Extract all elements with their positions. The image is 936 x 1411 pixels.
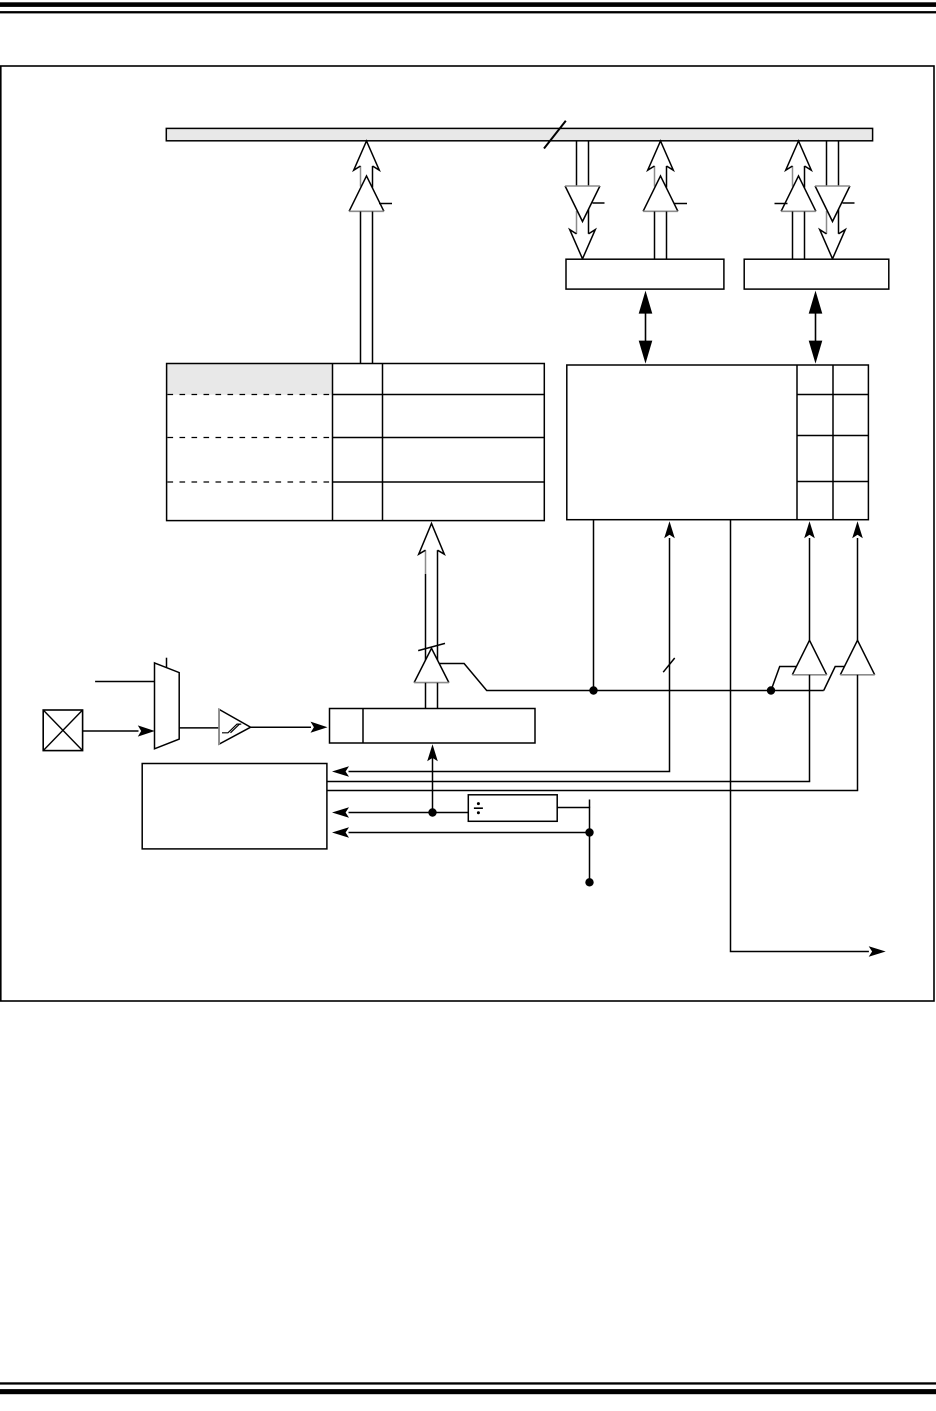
page header thick rule (0, 2, 936, 7)
wire crystal to mux (83, 725, 155, 736)
wire buffer1 to control box (327, 781, 810, 783)
wire divider output net (557, 800, 589, 883)
connector right (588, 208, 590, 234)
write driver assembly (bus down to buffer box A) (565, 141, 604, 259)
crystal symbol (43, 710, 82, 751)
wire schmitt to prescaler register (251, 722, 328, 733)
shaft to register file (360, 212, 362, 364)
dashed row 1 (168, 394, 333, 396)
dashed row 2 (168, 437, 333, 439)
wire counter to enable net (593, 520, 595, 691)
width slash (663, 658, 675, 672)
triangle base (grey) (414, 682, 449, 684)
shaft right (437, 550, 439, 664)
enable polyline to read-enable net (439, 664, 824, 691)
read driver assembly 1 (to bus, over register file) (349, 141, 392, 364)
buffer box A (566, 259, 724, 289)
bidirectional arrow A (639, 291, 653, 364)
junction dot (box line / enable net) (589, 686, 597, 694)
sub row 2 (797, 435, 868, 437)
prescaler register box (330, 709, 536, 744)
mux select tick (166, 658, 168, 668)
net terminal dot (585, 878, 593, 886)
read-enable kink to output buffer 1 (771, 667, 797, 691)
page footer thin rule (0, 1382, 936, 1384)
triangle top (grey) (565, 185, 600, 187)
output buffer 1 (to counter) (792, 521, 826, 781)
clock mux (155, 658, 180, 749)
inner cell divider (362, 709, 364, 744)
wire control line 5 (332, 827, 594, 838)
wire mux to schmitt (179, 727, 219, 729)
page header thin rule (0, 11, 936, 13)
shaft from bus (576, 141, 578, 186)
bus bar (grey) (166, 128, 872, 140)
column line 2 (382, 364, 384, 521)
column line 1 (332, 364, 334, 521)
read driver assembly 3 (box B to bus, enable tick left) (775, 141, 816, 259)
sub column line 2 (832, 365, 834, 520)
sub row 1 (797, 394, 868, 396)
enable tick (593, 202, 605, 204)
shaft left (black part) (425, 574, 427, 662)
page footer thick rule (0, 1389, 936, 1394)
figure outer frame (1, 66, 934, 1001)
shaft below triangle (425, 683, 427, 709)
grey cell (167, 364, 333, 395)
buffer triangle up (349, 176, 384, 211)
triangle base (grey) (349, 210, 384, 212)
bidirectional arrow B (809, 291, 823, 364)
bus width slash (544, 121, 566, 149)
hysteresis glyph (222, 724, 241, 733)
sub row 3 (797, 481, 868, 483)
wire counter output to right edge (731, 520, 886, 957)
schmitt trigger buffer (219, 709, 251, 745)
wire second clock input (95, 681, 154, 683)
output buffer 2 (to counter) (840, 521, 874, 790)
buffer triangle down (565, 186, 600, 222)
open arrowhead down (570, 230, 596, 259)
read driver assembly 2 (box A to bus) (643, 141, 687, 259)
divider box (468, 795, 557, 822)
write driver assembly 2 (bus down to buffer box B) (815, 141, 854, 259)
dashed row 3 (168, 481, 333, 483)
open arrowhead up (354, 141, 380, 170)
width slash (418, 643, 445, 650)
divide symbol (474, 807, 483, 809)
grey connector left (576, 211, 578, 234)
enable tick (379, 203, 392, 205)
grey connector left (425, 550, 427, 574)
wire counter msb out, slashed, to control box (332, 521, 675, 777)
read-enable kink to output buffer 2 (824, 667, 845, 691)
solid row 3 (333, 481, 545, 483)
table outline (167, 364, 545, 521)
junction dot (enable net / buffer kink) (767, 686, 775, 694)
wire buffer2 to control box (327, 790, 858, 792)
buffer triangle up (414, 648, 449, 682)
shaft connector right (372, 166, 374, 188)
grey shaft connector left (360, 166, 362, 187)
wire control line 4 to divider (332, 807, 468, 818)
solid row 2 (333, 437, 545, 439)
control logic box (142, 764, 327, 849)
sub column line 1 (796, 365, 798, 520)
register file table (left) (167, 364, 545, 521)
open arrowhead up (419, 524, 445, 555)
solid row 1 (333, 394, 545, 396)
wire divider tap to register (arrow up) (427, 744, 438, 812)
big bus arrow assembly (prescaler to register file) (414, 524, 824, 709)
buffer box B (744, 259, 889, 289)
counter block (right) (567, 365, 869, 520)
corner overshoot tick (589, 800, 591, 808)
